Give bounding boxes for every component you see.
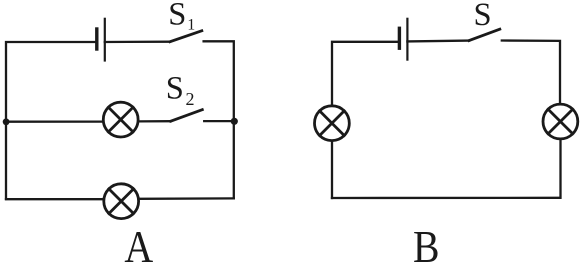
svg-text:1: 1: [187, 16, 195, 33]
svg-text:S: S: [166, 71, 184, 107]
wire: circuit A bottom, lamp L2 to right corner: [140, 197, 234, 200]
svg-text:B: B: [413, 221, 440, 263]
wire: lamp L1 to switch S2: [139, 120, 171, 123]
node: right junction of middle branch: [231, 118, 238, 125]
svg-text:A: A: [124, 222, 153, 263]
label S1: [168, 0, 195, 33]
wire: circuit A top, battery to switch S1: [105, 41, 170, 44]
wire: circuit A right edge lower segment: [233, 121, 235, 198]
lamp L3 (circle with X) in circuit B left side: [315, 106, 350, 141]
switch S1 fixed contact and wire to top-right corner: [204, 41, 234, 121]
battery in circuit B (long thin plate, positive): [406, 19, 408, 60]
battery in circuit A (short thick plate, negative): [95, 29, 98, 49]
lamp L4 (circle with X) in circuit B right side: [543, 104, 578, 139]
battery in circuit B (short thick plate, negative): [398, 28, 401, 48]
battery in circuit A (long thin plate, positive): [104, 19, 106, 61]
label S2: [166, 71, 195, 109]
switch S2 fixed contact to right node: [204, 120, 234, 122]
switch S2 blade: [171, 110, 203, 122]
switch S fixed contact and wire to top-right corner: [502, 41, 560, 104]
label S: [474, 0, 492, 33]
wire: circuit B left edge lower segment: [331, 142, 333, 199]
switch S blade: [469, 29, 500, 40]
svg-text:S: S: [168, 0, 186, 32]
lamp L1 (circle with X) in middle branch: [103, 102, 138, 137]
wire: circuit B bottom segment: [332, 197, 560, 199]
svg-text:2: 2: [186, 89, 195, 109]
wire: circuit B top-left segment: [332, 42, 399, 105]
lamp L2 (circle with X) in bottom branch: [104, 184, 139, 219]
wire: circuit A bottom, left corner to lamp L2: [6, 198, 103, 200]
wire: circuit B right edge lower segment: [559, 140, 561, 198]
switch S1 blade: [170, 31, 202, 42]
label A: [124, 222, 153, 263]
wire: circuit A top-left segment: [6, 42, 96, 199]
wire: circuit B top, battery to switch S: [407, 39, 469, 42]
node: left junction of middle branch: [3, 118, 10, 125]
label B: [413, 221, 440, 263]
svg-text:S: S: [474, 0, 492, 33]
wire: circuit A middle branch, left node to lamp L1: [6, 120, 102, 122]
